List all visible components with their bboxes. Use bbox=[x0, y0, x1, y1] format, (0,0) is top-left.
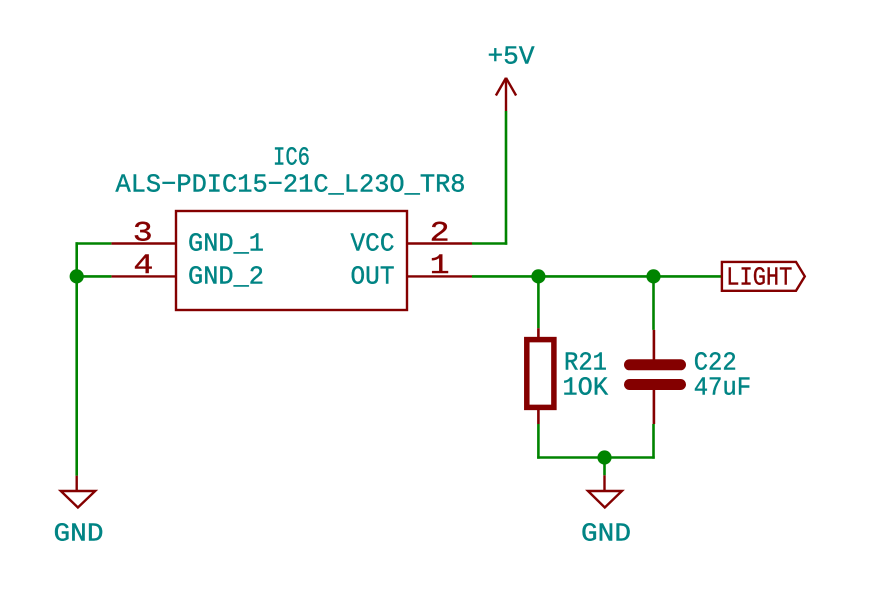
svg-text:+5V: +5V bbox=[488, 42, 535, 72]
wire: bottom rail bbox=[537, 456, 655, 459]
svg-text:IC6: IC6 bbox=[273, 143, 310, 173]
svg-text:GND_2: GND_2 bbox=[188, 262, 264, 292]
node: left junction bbox=[70, 269, 84, 283]
wire: GND_1 pin to left vertical bbox=[76, 242, 112, 245]
wire: VCC pin to +5V riser bbox=[472, 242, 507, 245]
pin 4 (GND_2) of IC6 bbox=[111, 251, 176, 282]
C22 reference label bbox=[694, 348, 737, 378]
R21 reference label bbox=[564, 348, 607, 378]
svg-text:LIGHT: LIGHT bbox=[726, 263, 792, 293]
power symbol +5V arrow bbox=[496, 78, 516, 111]
pin 1 (OUT) of IC6 bbox=[407, 251, 472, 282]
capacitor C22 bbox=[630, 330, 681, 424]
wire: OUT net to LIGHT label bbox=[472, 275, 722, 278]
pin name GND_2 bbox=[188, 262, 264, 292]
wire: +5V vertical riser bbox=[505, 111, 508, 245]
node: junction at C22 branch bbox=[646, 269, 660, 283]
svg-text:VCC: VCC bbox=[351, 229, 395, 259]
C22 value 47uF bbox=[694, 373, 752, 403]
svg-text:1: 1 bbox=[430, 251, 450, 282]
IC6 value label ALS-PDIC15-21C_L230_TR8 bbox=[116, 170, 466, 200]
svg-text:GND: GND bbox=[581, 519, 631, 549]
svg-text:2: 2 bbox=[430, 219, 450, 250]
IC6 reference label bbox=[273, 143, 310, 173]
wire: C22 bottom to bottom rail bbox=[652, 424, 655, 459]
op-amp IC6 body bbox=[176, 211, 407, 310]
pin name VCC bbox=[351, 229, 395, 259]
svg-text:47uF: 47uF bbox=[694, 373, 752, 403]
ground symbol (left) bbox=[61, 476, 95, 508]
wire: OUT net down to C22 bbox=[652, 276, 655, 330]
global label LIGHT bbox=[722, 262, 805, 293]
svg-text:ALS−PDIC15−21C_L23O_TR8: ALS−PDIC15−21C_L23O_TR8 bbox=[116, 170, 466, 200]
pin 2 (VCC) of IC6 bbox=[407, 219, 472, 250]
resistor R21 bbox=[527, 328, 554, 424]
GND net label (bottom) bbox=[581, 519, 631, 549]
svg-text:4: 4 bbox=[133, 251, 153, 282]
+5V net label bbox=[488, 42, 535, 72]
pin name OUT bbox=[351, 262, 395, 292]
svg-text:GND: GND bbox=[54, 519, 104, 549]
svg-text:GND_1: GND_1 bbox=[188, 229, 264, 259]
node: junction at R21 branch bbox=[531, 269, 545, 283]
svg-text:OUT: OUT bbox=[351, 262, 395, 292]
R21 value 10K bbox=[563, 373, 609, 403]
pin name GND_1 bbox=[188, 229, 264, 259]
svg-text:3: 3 bbox=[133, 219, 153, 250]
ground symbol (bottom) bbox=[588, 475, 622, 507]
svg-text:1OK: 1OK bbox=[563, 373, 609, 403]
wire: left vertical down to ground bbox=[75, 242, 78, 475]
wire: OUT net down to R21 bbox=[537, 276, 540, 328]
node: junction on bottom rail bbox=[597, 450, 611, 464]
pin 3 (GND_1) of IC6 bbox=[111, 219, 176, 250]
GND net label (left) bbox=[54, 519, 104, 549]
wire: GND_2 pin to left vertical bbox=[77, 275, 112, 278]
wire: bottom rail stub to ground bbox=[603, 458, 606, 476]
wire: R21 bottom to bottom rail bbox=[537, 424, 540, 459]
